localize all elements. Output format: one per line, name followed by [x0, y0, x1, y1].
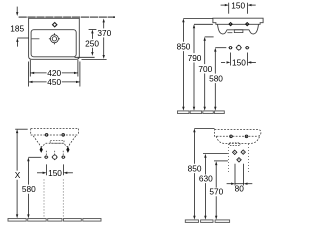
svg-text:80: 80 — [235, 184, 245, 194]
dimension 850 (front) — [182, 18, 184, 22]
floor line (bottom-left) — [8, 219, 101, 222]
svg-text:150: 150 — [231, 0, 245, 10]
dimension 185 lower bracket — [17, 37, 28, 39]
dashed basin rim (side view) — [215, 130, 261, 137]
svg-text:580: 580 — [22, 184, 36, 194]
dimension 150 (bottom-left) arrows and label — [37, 172, 43, 174]
wall section (plan), hatched gray bar — [19, 16, 115, 18]
svg-text:570: 570 — [209, 187, 223, 197]
dimension 850 (side) — [193, 128, 195, 132]
inner bowl (plan) — [31, 30, 76, 57]
dimension 185 upper arrow — [16, 7, 18, 13]
dimension X top extension — [15, 128, 28, 130]
tap hole circles (side view) — [230, 135, 248, 138]
dimension 790 (front) — [193, 24, 195, 28]
dimension 580 (bottom-left) top extension — [28, 156, 41, 158]
svg-text:450: 450 — [47, 77, 61, 87]
svg-text:700: 700 — [198, 64, 212, 74]
svg-text:850: 850 — [177, 41, 191, 51]
svg-text:X: X — [15, 170, 21, 180]
dashed bowl underside (side view) — [216, 136, 259, 143]
dimension 150 (middle) extension lines — [229, 53, 231, 66]
mounting hole marks (bottom-left): small + large + small — [44, 154, 65, 160]
dashed basin rim (bottom-left) — [31, 129, 79, 135]
svg-text:150: 150 — [232, 58, 246, 68]
tap hole diamonds on rim (front) — [229, 23, 232, 26]
fixing diamonds (side view) — [233, 150, 246, 162]
dimension 450 extension lines — [28, 62, 30, 87]
floor line (side view) — [185, 220, 229, 223]
dimension 250 bottom extension — [75, 56, 95, 58]
dimension 370 bottom extension — [82, 59, 107, 61]
dashed stubs above mounting marks — [46, 151, 63, 155]
overflow tab (front view) — [234, 30, 243, 33]
svg-text:185: 185 — [10, 23, 24, 33]
small ledge dash (front view) — [227, 32, 232, 34]
centerline dash to drain — [32, 38, 40, 40]
dimension 250 line and arrows — [91, 30, 93, 34]
dimension 700 (front) — [204, 37, 206, 41]
dimension 80 (side) line, arrows, label — [227, 183, 232, 185]
svg-text:630: 630 — [199, 174, 213, 184]
fixing arrows (bold) — [40, 146, 43, 153]
dimension 570 (side) — [215, 161, 217, 165]
dimension 420 line, arrows, label — [30, 72, 34, 74]
dashed overflow rect (bottom-left) — [50, 140, 64, 143]
svg-text:790: 790 — [188, 53, 202, 63]
mounting hole marks (front): small + large + small — [229, 45, 250, 51]
dimension 150 (top) arrows and label — [221, 4, 226, 6]
svg-text:850: 850 — [188, 163, 202, 173]
dashed bowl underside (bottom-left) — [33, 136, 76, 147]
dimension 580 (bottom-left) line, arrows, label — [27, 157, 29, 161]
floor line (front view) — [178, 111, 225, 114]
bowl profile (front view) — [218, 24, 259, 34]
svg-text:370: 370 — [97, 28, 111, 38]
basin outer rim (plan) — [29, 18, 80, 59]
basin rim (front view) — [213, 18, 263, 24]
tap hole diamond (plan) — [53, 23, 57, 27]
svg-text:250: 250 — [85, 38, 99, 48]
dotted drain column (side view) — [229, 144, 249, 174]
dimension 370 line and arrows — [103, 19, 105, 23]
tap hole circles (bottom-left) — [45, 134, 64, 137]
dimension 150 (bottom-left) extension lines — [46, 164, 48, 175]
dotted pedestal lines (bottom-left) — [44, 180, 63, 219]
dimension 80 (side) extension lines — [234, 164, 236, 186]
dimension 420 extension lines — [29, 60, 31, 77]
drain circles (plan) — [50, 35, 58, 43]
dimension 250 top extension — [89, 28, 97, 30]
dimension 150 (middle) arrows and label — [221, 61, 225, 63]
svg-text:580: 580 — [209, 74, 223, 84]
dimension 580 (front) — [214, 48, 216, 52]
dimension X line, arrows, label — [16, 129, 18, 133]
svg-text:150: 150 — [48, 168, 62, 178]
dimension 450 line, arrows, label — [29, 81, 33, 83]
dimension 150 (top) extension lines — [228, 3, 230, 14]
dashed trap detail (side view) — [230, 143, 241, 146]
dimension 630 (side) — [204, 154, 206, 158]
